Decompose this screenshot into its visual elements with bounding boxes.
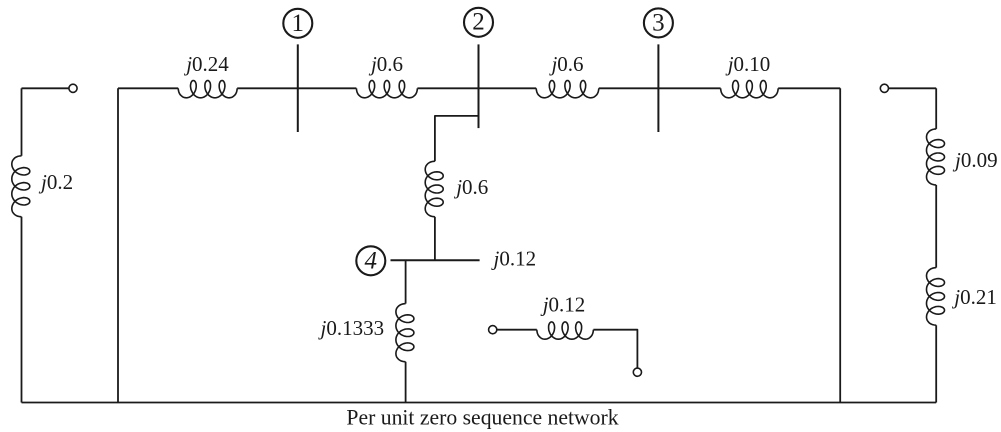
wire: left generator vertical (upper) xyxy=(21,88,23,156)
wire: right terminal to right generator corner xyxy=(889,87,937,89)
inductor j0.6 (line 1-2 series reactance) xyxy=(356,81,417,98)
wire: left generator vertical (lower) to bottom rail xyxy=(21,217,23,403)
wire: bus 2 stub left xyxy=(435,116,479,161)
wire: main box right edge down to bottom rail xyxy=(839,88,841,402)
bus 1 bar xyxy=(297,44,299,132)
node 3 label circle xyxy=(644,8,673,37)
svg-text:j0.24: j0.24 xyxy=(183,52,229,76)
svg-text:j0.6: j0.6 xyxy=(548,52,583,76)
svg-text:2: 2 xyxy=(472,9,485,36)
wire: right generator vertical (upper) xyxy=(935,88,937,129)
svg-text:j0.6: j0.6 xyxy=(453,175,488,199)
svg-text:j0.1333: j0.1333 xyxy=(318,316,385,340)
wire: inductor j0.21 down to bottom rail xyxy=(935,325,937,402)
wire: inductor j0.6 down to bus 4 xyxy=(434,217,436,260)
wire: inductor j0.6 to bus 3 xyxy=(599,87,721,89)
wire: inductor j0.10 to right corner xyxy=(778,87,840,89)
bus 2 bar xyxy=(478,44,480,128)
bus 3 bar xyxy=(657,44,659,132)
inductor j0.10 (transformer T2 reactance) xyxy=(721,81,779,98)
svg-text:Per unit zero sequence network: Per unit zero sequence network xyxy=(346,405,618,429)
wire: between j0.09 and j0.21 xyxy=(935,185,937,268)
node: right generator terminal (open circle) xyxy=(880,84,888,92)
wire: main box left edge xyxy=(117,88,119,402)
inductor j0.24 (line 1 series reactance) xyxy=(178,81,237,98)
inductor j0.6 (transformer T1 leg, bus2 to bus4) xyxy=(425,161,443,217)
wire: top bus wire, left edge to inductor j0.24 xyxy=(118,87,178,89)
inductor j0.6 (line 2-3 series reactance) xyxy=(536,81,599,98)
wire: left terminal to left generator corner xyxy=(22,87,69,89)
bus 4 bar xyxy=(391,259,480,261)
svg-text:j0.12: j0.12 xyxy=(491,247,537,271)
svg-text:j0.09: j0.09 xyxy=(952,148,998,172)
wire: inductor j0.6 to bus 2 xyxy=(417,87,536,89)
node 1 label circle xyxy=(283,9,312,38)
svg-text:j0.2: j0.2 xyxy=(38,170,73,194)
inductor j0.1333 (to ground) xyxy=(396,304,414,362)
node 2 label circle xyxy=(464,8,493,37)
wire: terminal to inductor j0.12 xyxy=(497,329,537,331)
node 4 label circle xyxy=(356,246,385,275)
inductor j0.12 (isolated branch) xyxy=(537,322,594,339)
node: left terminal of isolated branch (open circle) xyxy=(489,326,497,334)
wire: bottom rail xyxy=(22,402,937,404)
svg-text:1: 1 xyxy=(292,10,305,37)
svg-text:j0.12: j0.12 xyxy=(540,292,586,316)
wire: inductor j0.12 right and down xyxy=(593,330,637,368)
wire: inductor j0.1333 down to bottom rail xyxy=(405,362,407,403)
node: left generator terminal (open circle) xyxy=(69,84,77,92)
wire: inductor j0.24 to bus 1 xyxy=(237,87,356,89)
svg-text:j0.21: j0.21 xyxy=(951,285,997,309)
svg-text:j0.6: j0.6 xyxy=(368,52,403,76)
inductor j0.2 (left generator zero-seq reactance) xyxy=(12,156,30,217)
svg-text:j0.10: j0.10 xyxy=(725,52,771,76)
svg-text:3: 3 xyxy=(652,9,665,36)
node: bottom terminal of isolated branch (open circle) xyxy=(633,368,641,376)
inductor j0.09 (right generator reactance) xyxy=(927,129,945,185)
inductor j0.21 (right generator neutral reactance) xyxy=(927,268,945,326)
svg-text:4: 4 xyxy=(365,247,378,274)
wire: bus 4 down to inductor j0.1333 xyxy=(405,260,407,303)
